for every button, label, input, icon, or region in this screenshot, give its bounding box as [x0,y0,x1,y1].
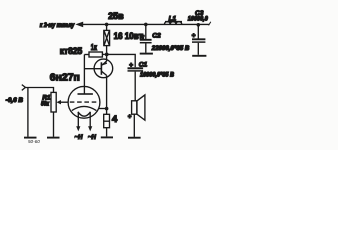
ground of R1 [47,137,60,139]
svg-text:C2: C2 [152,33,161,40]
capacitor C2 electrolytic [140,24,152,52]
speaker BA1 [132,95,145,137]
wire: tube anode to base (and 1k) [84,55,101,95]
ground of input [24,137,37,139]
ground of C3 [192,55,206,57]
svg-text:4: 4 [112,114,118,125]
ground of R4 [101,136,113,138]
svg-text:L1: L1 [169,15,177,22]
arrow: to 2nd channel [75,22,83,28]
svg-text:6н27п: 6н27п [50,73,80,84]
node: rail / R16 junction [105,23,109,27]
node: emitter / R16 / C1 junction [105,53,109,57]
svg-text:~Н: ~Н [75,135,84,141]
svg-text:+: + [141,33,145,40]
svg-text:22000,0*35 В: 22000,0*35 В [151,45,190,52]
svg-text:10000,0: 10000,0 [188,16,208,23]
resistor R4 (4 Om, 1W mark) [104,114,110,136]
tube V1 6n27p [68,86,100,118]
resistor 16 Om 10W (X = 10W mark) [104,24,110,52]
heater lead right with arrow [88,113,92,132]
svg-text:16 10вт.: 16 10вт. [114,31,145,41]
wire: cathode to collector/R4 node [99,108,107,110]
ground of C2 [140,53,153,55]
heater lead left with arrow [76,113,80,132]
ground of speaker [128,137,141,139]
svg-text:50к: 50к [41,101,50,108]
svg-text:+: + [129,62,133,69]
svg-text:50-60: 50-60 [28,139,40,144]
svg-text:C1: C1 [139,61,148,68]
resistor 1k (base resistor) [84,52,105,57]
transistor Q1 KT825 [94,54,113,114]
svg-text:1к: 1к [91,43,98,52]
node: rail / C2 junction [144,23,148,27]
wire: emitter node to C1 [109,54,136,67]
svg-text:+: + [192,32,196,39]
capacitor C1 electrolytic (output) [128,68,144,101]
node: rail / C3 junction [197,23,201,27]
node: cathode / collector / R4 junction [105,107,109,111]
svg-text:~Н: ~Н [88,135,97,141]
input terminal chevron [22,85,26,91]
capacitor C3 electrolytic [192,25,205,55]
svg-text:+: + [128,115,132,121]
svg-text:10000,0*35 В: 10000,0*35 В [140,71,174,78]
potentiometer R1 50k [51,92,68,136]
wire: input to R1 top [25,88,53,93]
svg-text:25в: 25в [108,10,124,21]
svg-text:к 2-му каналу: к 2-му каналу [40,22,75,29]
svg-text:кт825: кт825 [60,46,82,56]
svg-text:-0,6 В: -0,6 В [6,97,24,104]
wire: top +25V supply rail [82,23,210,25]
wire: break tick at right end of rail [209,22,211,26]
inductor L1 [164,21,182,24]
wire: input shield down [27,88,29,137]
